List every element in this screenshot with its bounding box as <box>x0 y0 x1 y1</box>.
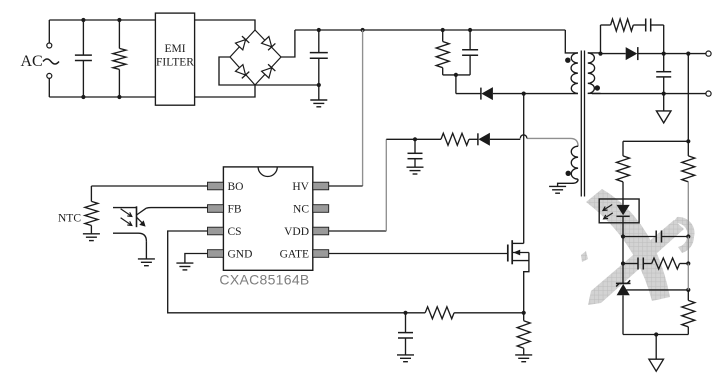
svg-text:BO: BO <box>228 181 244 193</box>
svg-text:FB: FB <box>228 204 242 216</box>
svg-text:VDD: VDD <box>284 226 309 238</box>
capacitor C2 <box>310 28 328 87</box>
diode D1 <box>456 87 524 100</box>
wire fb bottom <box>623 332 688 336</box>
AC input source <box>21 20 60 97</box>
node cs cap <box>403 311 407 315</box>
secondary phase dot <box>595 85 600 90</box>
wire comp mid right <box>686 237 690 266</box>
svg-text:CS: CS <box>228 226 242 238</box>
ground bulk <box>310 85 327 107</box>
resistor R5 <box>682 141 695 236</box>
capacitor C7 resistor R6 <box>623 258 688 270</box>
ground opto <box>138 259 155 266</box>
diode D3 <box>469 133 520 146</box>
capacitor C1 <box>75 18 92 99</box>
wire ref <box>627 288 691 292</box>
resistor R4 <box>617 141 630 199</box>
primary phase dot <box>565 58 570 63</box>
EMI filter block <box>155 13 194 105</box>
ground R10 <box>515 355 532 362</box>
terminal out minus <box>706 91 711 96</box>
svg-text:AC: AC <box>21 53 43 70</box>
wire bridge minus <box>219 57 319 85</box>
ground C9 <box>397 355 414 362</box>
node comp1 right <box>686 234 690 238</box>
wire CS <box>168 231 406 313</box>
svg-text:HV: HV <box>292 181 309 193</box>
resistor R8 <box>415 133 469 145</box>
node vdd cap <box>413 137 417 141</box>
bridge rectifier BD1 <box>230 30 281 85</box>
transistor Q1 <box>508 240 529 313</box>
wire ac bottom <box>49 96 155 98</box>
transformer primary W1 <box>565 30 578 93</box>
earth output <box>656 94 671 123</box>
op-amp U1 body <box>208 167 329 270</box>
transformer aux W3 <box>527 138 578 186</box>
earth feedback <box>649 335 664 372</box>
resistor R2 <box>436 28 449 75</box>
wire sec top <box>598 52 625 56</box>
svg-text:GATE: GATE <box>280 249 309 261</box>
label NTC <box>58 213 81 225</box>
wire BO <box>91 185 207 187</box>
resistor R1 <box>113 18 126 99</box>
terminal out plus <box>706 51 711 56</box>
node comp1 left <box>621 234 625 238</box>
aux phase dot <box>566 171 571 176</box>
wire out minus <box>592 93 709 95</box>
svg-text:NC: NC <box>293 204 309 216</box>
shunt regulator U3 <box>616 264 631 335</box>
capacitor C6 <box>623 231 688 243</box>
wire GATE <box>329 253 508 255</box>
optocoupler transistor U2b <box>113 206 146 241</box>
svg-text:CXAC85164B: CXAC85164B <box>219 271 309 287</box>
svg-text:NTC: NTC <box>58 213 81 225</box>
wire emi-bridge bottom <box>195 85 255 97</box>
thermistor NTC <box>85 186 98 234</box>
resistor R9 <box>406 307 526 319</box>
label CXAC85164B <box>219 271 309 287</box>
capacitor C8 <box>408 139 423 167</box>
capacitor C5 <box>656 54 671 96</box>
wire HV <box>329 28 365 186</box>
snubber R3 C4 <box>601 19 664 54</box>
wire fb vertical top <box>686 54 690 144</box>
wire out plus <box>662 52 709 56</box>
wire comp mid left <box>621 237 625 266</box>
resistor R7 <box>682 290 695 335</box>
wire opto emitter <box>145 241 147 259</box>
ground aux <box>549 186 566 193</box>
wire ac top <box>49 19 155 21</box>
ground U1 <box>176 254 207 270</box>
wire VDD <box>329 139 415 231</box>
svg-text:EMI: EMI <box>164 43 185 55</box>
capacitor C3 <box>462 28 478 75</box>
resistor R10 <box>517 313 530 355</box>
transformer core <box>581 51 584 197</box>
wire fb top row <box>623 140 688 142</box>
wire clamp join <box>443 73 470 94</box>
wire divider mid <box>687 264 689 290</box>
capacitor C9 <box>398 313 413 355</box>
svg-text:FILTER: FILTER <box>156 57 194 69</box>
optocoupler LED U2a <box>599 199 639 237</box>
transformer secondary W2 <box>588 53 601 94</box>
wire emi-bridge top <box>195 20 255 30</box>
diode D2 <box>626 47 664 60</box>
wire dc rail <box>295 29 565 31</box>
node drain <box>522 92 578 96</box>
wire hop <box>520 135 527 139</box>
pin labels U1 <box>228 181 310 261</box>
ground NTC <box>83 234 100 241</box>
svg-text:GND: GND <box>228 249 253 261</box>
wire bridge plus <box>281 30 295 57</box>
wire FB <box>146 207 207 210</box>
wire drain <box>523 94 525 244</box>
ground C8 <box>407 167 424 174</box>
